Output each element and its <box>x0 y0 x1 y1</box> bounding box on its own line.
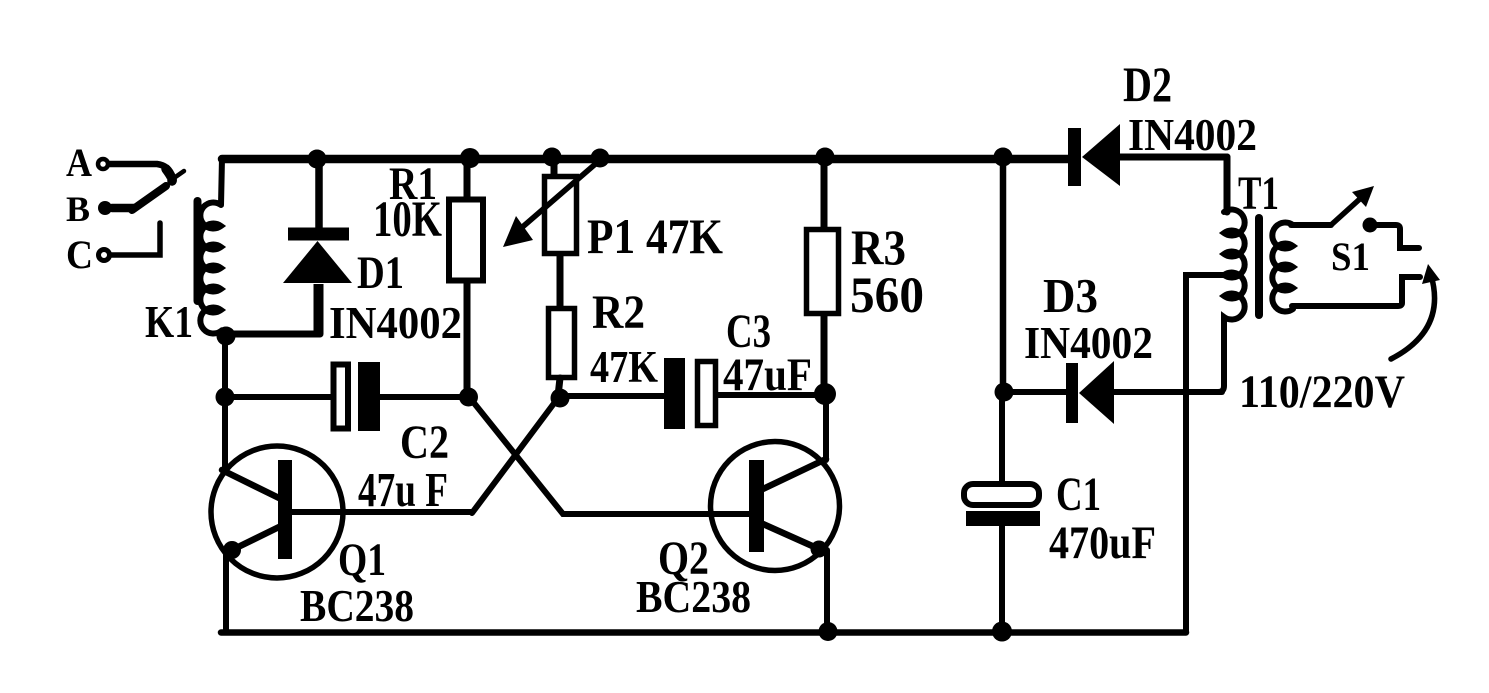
svg-text:S1: S1 <box>1331 234 1370 279</box>
wire C3 right <box>716 392 825 398</box>
wire R3 bottom lead <box>821 315 828 393</box>
wire Q2 emitter to bottom rail <box>824 550 830 632</box>
wire C1 top lead <box>999 392 1005 484</box>
wire top rail <box>222 155 1068 164</box>
wire D3 anode to T1 <box>1114 389 1222 395</box>
transformer T1 secondary <box>1272 223 1293 312</box>
wire P1 to R2 <box>557 255 564 306</box>
transformer T1 core <box>1255 218 1263 315</box>
svg-text:T1: T1 <box>1238 167 1279 220</box>
svg-text:K1: K1 <box>145 296 193 347</box>
svg-text:D1: D1 <box>357 247 404 299</box>
resistor R2 <box>549 309 575 378</box>
wire D3 cathode lead <box>1004 389 1066 395</box>
switch S1 direction arrow <box>1391 275 1435 359</box>
transistor Q2 <box>711 442 840 571</box>
wire C2 right <box>380 394 470 400</box>
transistor Q1 <box>211 446 343 578</box>
wire R3 top lead <box>821 158 828 227</box>
svg-text:110/220V: 110/220V <box>1239 366 1405 418</box>
svg-text:Q1: Q1 <box>338 534 386 586</box>
svg-text:IN4002: IN4002 <box>1024 317 1153 368</box>
node right rail top <box>994 148 1013 167</box>
node right rail D3 <box>995 383 1014 402</box>
transformer T1 primary <box>1224 210 1245 330</box>
wire P1 top lead <box>551 157 558 174</box>
wire Q2 collector <box>763 459 826 489</box>
wire Q1 base lead <box>292 509 472 515</box>
wire terminal B <box>112 204 134 213</box>
relay K1 armature bar <box>194 201 202 301</box>
svg-text:R3: R3 <box>851 219 906 275</box>
svg-text:47uF: 47uF <box>723 349 812 401</box>
wire Q1 collector <box>222 470 281 499</box>
relay K1 coil <box>200 158 226 336</box>
wire C1 bottom lead <box>999 526 1005 632</box>
wire terminal C <box>111 223 160 255</box>
wire D2 anode lead <box>1120 154 1227 161</box>
node S1 pivot <box>1363 218 1378 233</box>
node P1 wiper junction <box>591 149 610 168</box>
wire R1 top lead <box>464 158 471 197</box>
terminal C <box>99 250 110 261</box>
node C3 right / R3 bottom <box>814 383 836 405</box>
svg-text:IN4002: IN4002 <box>1128 109 1257 160</box>
node P1 top <box>543 148 562 167</box>
svg-text:BC238: BC238 <box>636 571 751 622</box>
svg-text:47u F: 47u F <box>358 462 448 517</box>
terminal A <box>98 159 108 169</box>
svg-text:IN4002: IN4002 <box>329 297 462 348</box>
wire left rail lower <box>223 551 229 631</box>
wire C3 left <box>558 393 664 399</box>
capacitor C3 <box>664 358 685 429</box>
wire C2 left <box>225 394 331 400</box>
node R3 top <box>816 148 835 167</box>
wire P1 wiper arrow <box>519 160 600 230</box>
switch S1 blade arrow <box>1331 197 1362 225</box>
svg-text:47K: 47K <box>590 342 658 392</box>
wire bottom rail <box>221 629 1186 636</box>
resistor R1 <box>449 200 483 281</box>
svg-text:10K: 10K <box>373 192 442 248</box>
relay fixed contact hook <box>166 169 172 181</box>
node C2 left <box>216 388 235 407</box>
wire R2 bottom lead <box>558 378 560 396</box>
svg-text:C: C <box>66 232 93 277</box>
wire D2 to T1 primary <box>1224 157 1231 212</box>
svg-text:A: A <box>66 140 92 185</box>
diode D1 <box>283 241 352 283</box>
node R1 top <box>460 148 480 168</box>
node Q1 emitter <box>223 541 241 559</box>
capacitor C2 <box>334 365 349 429</box>
wire D1 anode lead <box>314 284 324 334</box>
svg-text:B: B <box>66 189 90 229</box>
node C2 right / R1 bottom <box>459 388 478 407</box>
terminal B <box>98 201 112 215</box>
node bottom rail Q2 <box>819 622 838 641</box>
wire left rail upper <box>222 336 228 471</box>
wire R3 node to Q2 collector <box>823 394 829 460</box>
wire T1 primary bottom <box>1218 330 1224 392</box>
wire R1 bottom lead <box>464 283 471 395</box>
wire cross diagonal to Q1 base <box>472 398 558 513</box>
wire T1 secondary top to S1 <box>1291 222 1331 228</box>
svg-text:D3: D3 <box>1043 268 1098 323</box>
svg-text:R2: R2 <box>592 286 645 339</box>
svg-text:C1: C1 <box>1056 468 1101 521</box>
wire terminal A to fixed contact <box>110 164 173 177</box>
diode D3 <box>1066 363 1078 423</box>
svg-text:BC238: BC238 <box>300 580 414 631</box>
switch S1 lower throw contact <box>1292 277 1420 306</box>
wire Q1 emitter <box>232 526 281 550</box>
wire S1 to T1 secondary bottom <box>1290 306 1296 308</box>
wire D1 cathode lead <box>315 162 323 228</box>
svg-text:D2: D2 <box>1123 56 1172 112</box>
potentiometer P1 <box>545 177 577 254</box>
node Q2 emitter <box>811 541 828 558</box>
wire right rail <box>1000 158 1007 392</box>
node R2 bottom / C3 left <box>551 389 570 408</box>
node relay bottom junction <box>217 327 236 346</box>
wire cross diagonal to Q2 base <box>470 398 750 514</box>
capacitor C1 <box>964 484 1039 505</box>
diode D2 <box>1068 128 1081 186</box>
switch S1 upper throw contact <box>1377 225 1419 248</box>
wire relay to D1 anode <box>226 331 320 338</box>
wire T1 center tap <box>1186 275 1224 632</box>
wire Q2 emitter <box>763 524 819 549</box>
relay contact arm <box>132 186 166 210</box>
svg-text:P1 47K: P1 47K <box>587 208 723 264</box>
svg-text:470uF: 470uF <box>1049 517 1156 569</box>
svg-text:560: 560 <box>850 268 924 324</box>
node D1 top <box>308 150 327 169</box>
node bottom rail C1 <box>992 622 1012 642</box>
resistor R3 <box>807 230 839 314</box>
